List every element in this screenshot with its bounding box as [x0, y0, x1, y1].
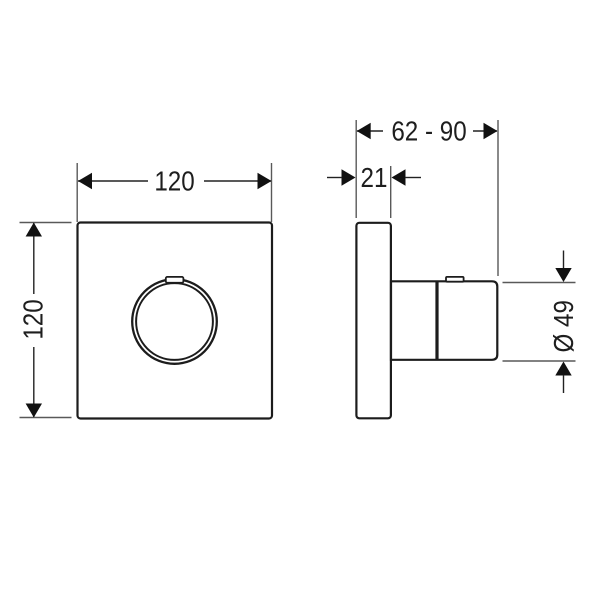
- knob grip tab (side view): [446, 277, 464, 282]
- knob outer circle (front view): [132, 279, 217, 364]
- dimension line 62-90 (left segment): [357, 130, 383, 132]
- side plate (escutcheon edge, side view): [356, 223, 391, 418]
- extension line top of diameter 49: [503, 282, 576, 284]
- knob collar separator line (side view): [435, 281, 438, 360]
- front plate (square escutcheon, front view): [78, 223, 273, 419]
- knob inner circle (front view): [136, 283, 213, 360]
- dimension line 120 vertical (top segment): [33, 223, 35, 294]
- dimension line 62-90 (right segment): [473, 130, 497, 132]
- extension line bottom of diameter 49: [503, 360, 576, 362]
- tail bottom of diameter 49: [563, 375, 565, 393]
- extension line bottom of square left: [20, 417, 72, 419]
- arrow left of 120 horizontal: [78, 173, 92, 189]
- arrow top of 120 vertical: [26, 223, 42, 237]
- extension line right of 21 (plate right edge extended): [390, 166, 392, 218]
- tail left of 21: [327, 177, 342, 179]
- arrow right of 62-90: [484, 123, 498, 139]
- svg-text:Ø 49: Ø 49: [550, 300, 580, 352]
- dimension line 120 horizontal (right segment): [204, 180, 271, 182]
- extension line left of square top: [76, 163, 78, 222]
- knob body (side view, with rounded right corners): [391, 281, 497, 360]
- tail right of 21: [405, 177, 421, 179]
- tail top of diameter 49: [563, 251, 565, 270]
- svg-text:120: 120: [19, 299, 49, 339]
- extension line left of 62-90 (plate left edge extended): [355, 120, 357, 218]
- extension line right of 62-90 (knob max reach): [497, 120, 499, 276]
- svg-text:21: 21: [361, 164, 388, 194]
- extension line top of square left: [20, 222, 72, 224]
- knob grip tab (front view): [166, 277, 184, 283]
- arrow right of 120 horizontal: [258, 173, 272, 189]
- extension line right of square top: [271, 163, 273, 222]
- dimension line 120 vertical (bottom segment): [33, 347, 35, 417]
- arrow left of 21 (outside, pointing right): [342, 169, 356, 185]
- svg-text:120: 120: [154, 167, 194, 197]
- arrow left of 62-90: [357, 123, 371, 139]
- arrow bottom of 120 vertical: [26, 404, 42, 418]
- arrow bottom of diameter 49 (pointing up): [555, 362, 571, 376]
- arrow top of diameter 49 (pointing down): [555, 268, 571, 282]
- dimension line 120 horizontal (left segment): [78, 180, 148, 182]
- arrow right of 21 (outside, pointing left): [392, 169, 406, 185]
- svg-text:62 - 90: 62 - 90: [391, 117, 466, 147]
